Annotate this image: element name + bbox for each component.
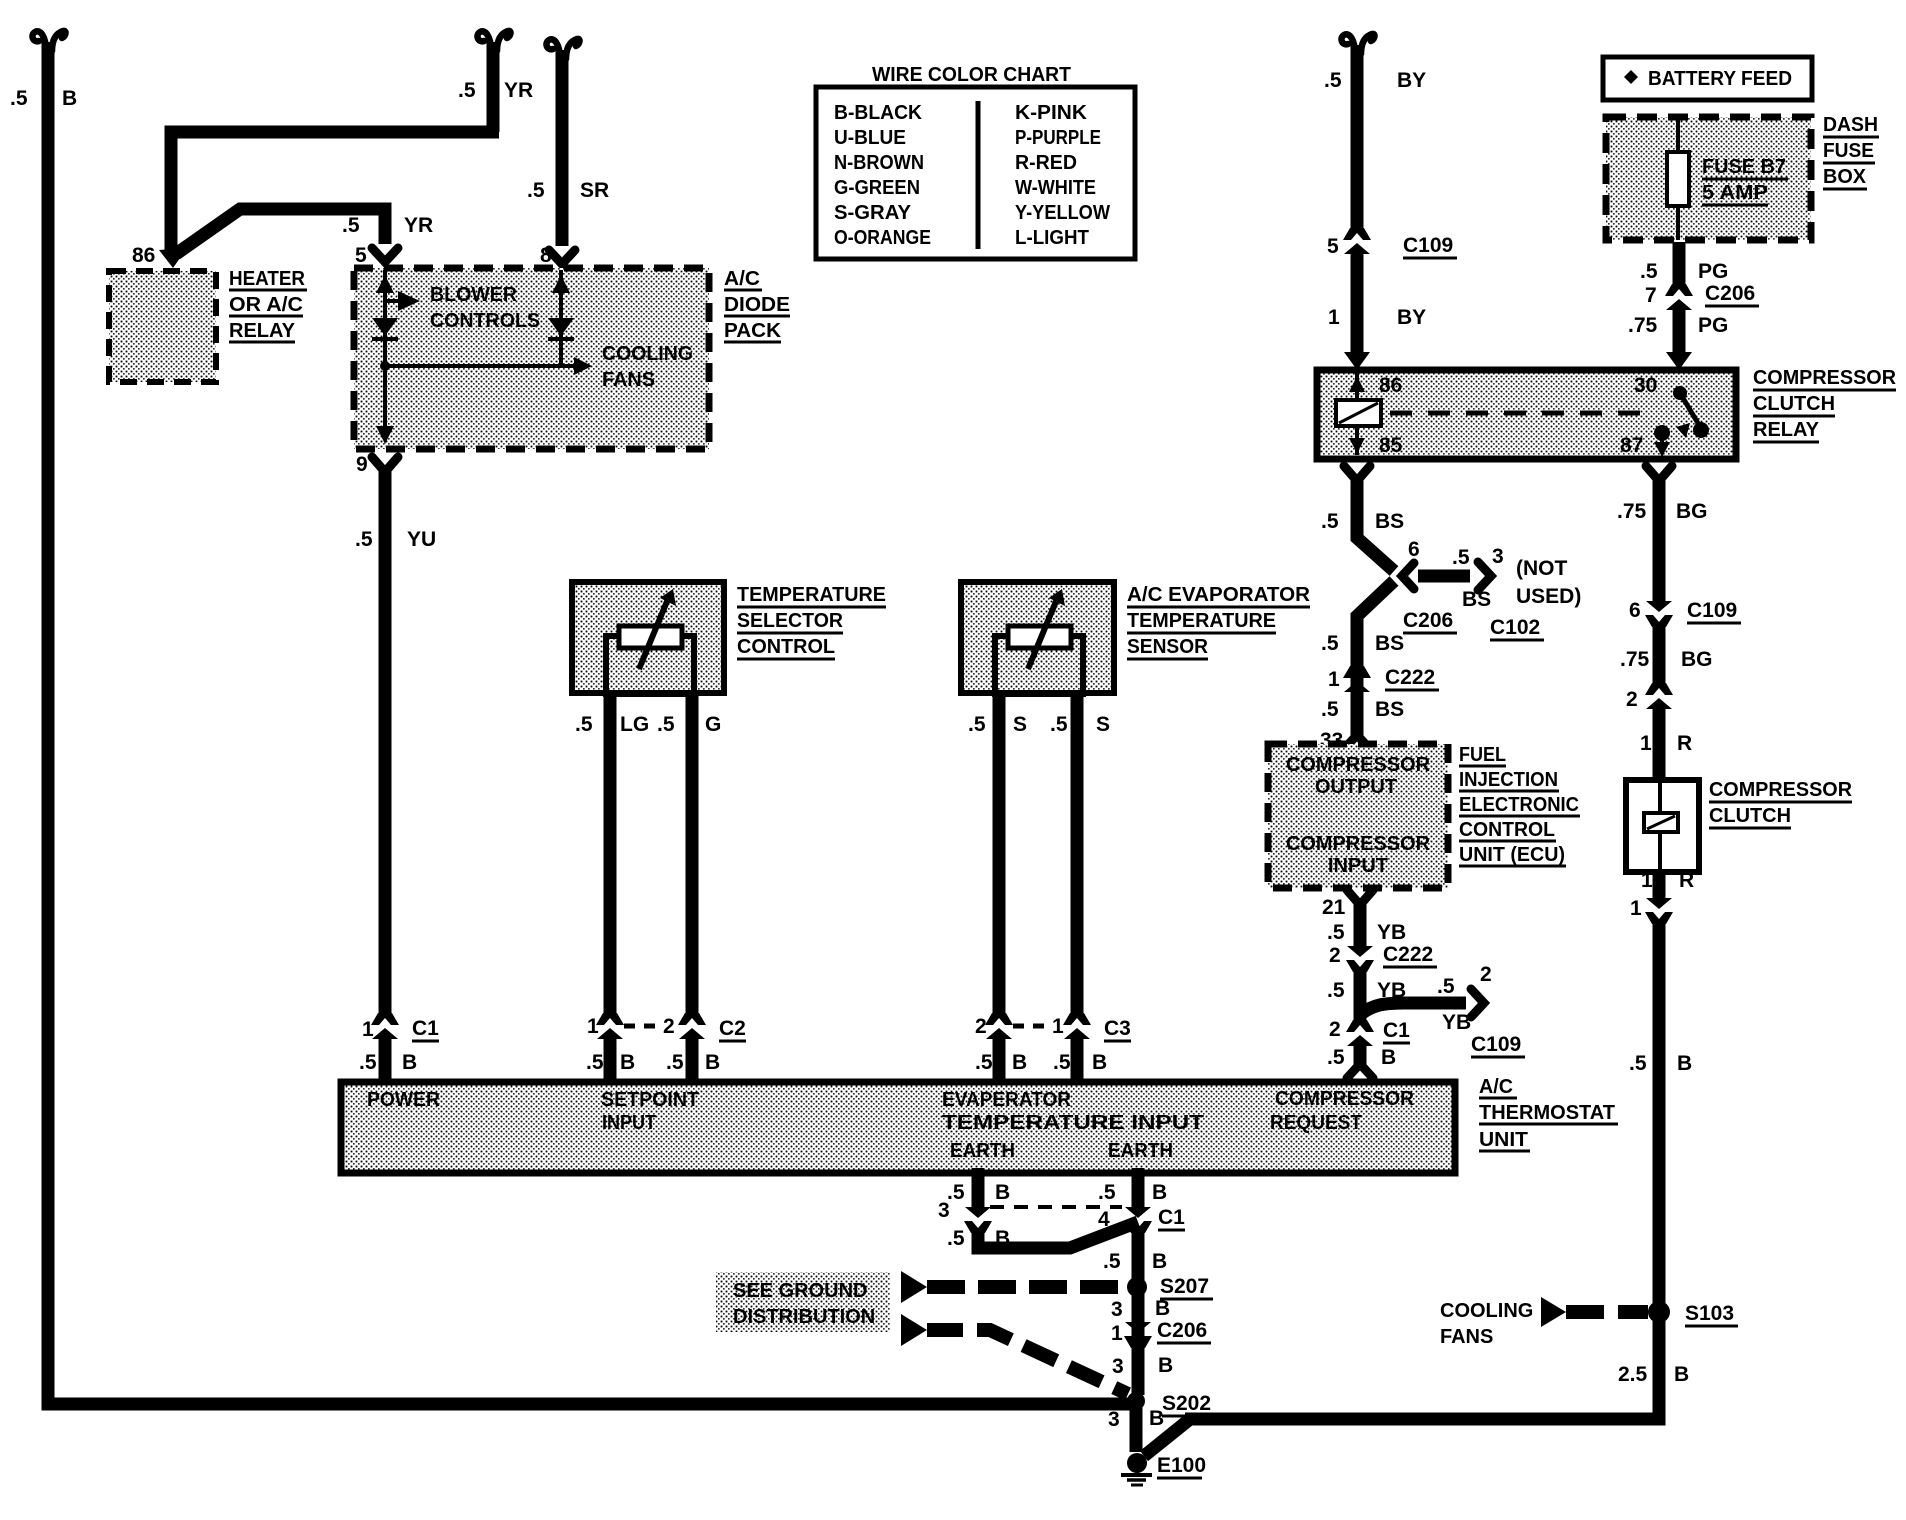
svg-text:PG: PG: [1698, 260, 1728, 283]
junction S202: [1127, 1392, 1145, 1410]
ECU box texts: [1286, 754, 1431, 877]
svg-text:TEMPERATURE: TEMPERATURE: [737, 584, 886, 606]
svg-text:C222: C222: [1383, 943, 1433, 966]
fork into pin 8: [549, 250, 575, 264]
svg-text:B: B: [1158, 1354, 1173, 1377]
svg-text:EVAPERATOR: EVAPERATOR: [942, 1089, 1072, 1111]
connector C3 pin 2: [985, 1013, 1013, 1039]
svg-text:B: B: [1149, 1407, 1164, 1430]
svg-text:6: 6: [1408, 538, 1420, 561]
branch wire YB to C109: [1361, 1003, 1466, 1014]
svg-text:B: B: [1155, 1297, 1170, 1320]
svg-text:INPUT: INPUT: [602, 1112, 656, 1134]
svg-text:.5: .5: [1629, 1052, 1647, 1075]
svg-text:.5: .5: [1452, 546, 1470, 569]
fork below relay 85: [1344, 466, 1370, 481]
label A/C EVAPORATOR TEMPERATURE SENSOR: [1127, 584, 1311, 659]
svg-text:B-BLACK: B-BLACK: [834, 102, 923, 124]
svg-text:.5: .5: [1640, 260, 1658, 283]
svg-text:B: B: [1152, 1250, 1167, 1273]
svg-text:.5: .5: [666, 1051, 684, 1074]
svg-text:.5: .5: [1327, 1046, 1345, 1069]
junction fork C206 pin 6: [1402, 563, 1414, 589]
compressor clutch box: [1626, 780, 1699, 872]
wire color chart box: [816, 87, 1135, 259]
svg-text:.5: .5: [947, 1227, 965, 1250]
arrow up pin 5: [376, 275, 394, 293]
svg-text:TEMPERATURE INPUT: TEMPERATURE INPUT: [942, 1112, 1204, 1134]
ground distribution dashed arrow to S202: [901, 1314, 1128, 1394]
svg-text:8: 8: [540, 244, 552, 267]
svg-text:6: 6: [1629, 599, 1641, 622]
diode pin 5: [372, 318, 398, 336]
wire R to clutch: [1653, 707, 1666, 778]
label HEATER OR A/C RELAY: [229, 268, 307, 342]
svg-text:B: B: [995, 1181, 1010, 1204]
fork below ECU pin 21: [1347, 890, 1373, 905]
label COMPRESSOR CLUTCH RELAY: [1753, 367, 1897, 442]
svg-text:BS: BS: [1375, 632, 1404, 655]
fork end not used: [1478, 562, 1491, 590]
svg-text:9: 9: [356, 453, 368, 476]
label COMPRESSOR CLUTCH: [1709, 779, 1853, 828]
svg-text:COMPRESSOR: COMPRESSOR: [1709, 779, 1853, 801]
A/C thermostat unit box: [341, 1082, 1455, 1173]
wire YR from top curl to heater relay pin 86: [171, 31, 511, 252]
temperature selector control box: [572, 582, 724, 693]
svg-text:DIODE: DIODE: [724, 294, 790, 316]
svg-text:O-ORANGE: O-ORANGE: [834, 227, 931, 249]
svg-text:C109: C109: [1687, 599, 1737, 622]
svg-text:4: 4: [1098, 1208, 1110, 1231]
svg-text:2: 2: [663, 1015, 675, 1038]
svg-text:.5: .5: [1098, 1181, 1116, 1204]
svg-text:.5: .5: [975, 1051, 993, 1074]
svg-text:COOLING: COOLING: [602, 343, 693, 365]
arrow to blower controls: [385, 299, 398, 303]
wire earth right from box: [1132, 1168, 1145, 1208]
svg-text:2: 2: [1329, 944, 1341, 967]
svg-text:C109: C109: [1403, 234, 1453, 257]
connector C222 pin 1: [1343, 666, 1371, 692]
svg-text:OUTPUT: OUTPUT: [1315, 776, 1397, 798]
svg-text:C3: C3: [1104, 1017, 1131, 1040]
connector C1 pin 2: [1346, 1020, 1374, 1046]
svg-text:BATTERY FEED: BATTERY FEED: [1648, 68, 1792, 90]
svg-text:5: 5: [355, 244, 367, 267]
svg-text:EARTH: EARTH: [950, 1140, 1015, 1162]
svg-text:2.5: 2.5: [1618, 1363, 1648, 1386]
wire R below clutch: [1653, 872, 1666, 899]
svg-text:L-LIGHT: L-LIGHT: [1015, 227, 1089, 249]
svg-text:G-GREEN: G-GREEN: [834, 177, 920, 199]
svg-text:SEE GROUND: SEE GROUND: [733, 1280, 867, 1302]
svg-text:R: R: [1679, 869, 1694, 892]
svg-text:C1: C1: [1383, 1019, 1410, 1042]
svg-text:.5: .5: [10, 87, 28, 110]
svg-text:P-PURPLE: P-PURPLE: [1015, 127, 1101, 149]
svg-text:DASH: DASH: [1823, 114, 1878, 136]
svg-text:PG: PG: [1698, 314, 1728, 337]
svg-text:BG: BG: [1681, 648, 1713, 671]
svg-text:S: S: [1096, 713, 1110, 736]
svg-text:FUSE: FUSE: [1823, 140, 1874, 162]
svg-text:UNIT: UNIT: [1479, 1129, 1528, 1151]
connector C206 pin 1 (down): [1124, 1322, 1152, 1348]
svg-text:REQUEST: REQUEST: [1270, 1112, 1362, 1134]
svg-text:YU: YU: [407, 528, 436, 551]
svg-text:.5: .5: [1324, 69, 1342, 92]
svg-text:TEMPERATURE: TEMPERATURE: [1127, 610, 1276, 632]
dashed link C1 bottom: [990, 1205, 1122, 1209]
svg-text:C2: C2: [719, 1017, 746, 1040]
svg-text:2: 2: [1329, 1018, 1341, 1041]
svg-text:.5: .5: [342, 214, 360, 237]
wire YB lower with branch: [1354, 968, 1367, 1023]
svg-text:B: B: [705, 1051, 720, 1074]
svg-text:R: R: [1677, 732, 1692, 755]
svg-text:.5: .5: [1321, 632, 1339, 655]
fork into ECU pin 33: [1344, 735, 1370, 749]
svg-text:30: 30: [1634, 374, 1657, 397]
svg-text:Y-YELLOW: Y-YELLOW: [1015, 202, 1110, 224]
svg-text:S202: S202: [1162, 1392, 1211, 1415]
connector pin 1 (down): [1645, 898, 1673, 924]
svg-text:.5: .5: [527, 179, 545, 202]
svg-text:FUSE B7: FUSE B7: [1702, 156, 1786, 178]
svg-text:7: 7: [1645, 284, 1657, 307]
svg-text:2: 2: [1480, 963, 1492, 986]
svg-text:3: 3: [938, 1199, 950, 1222]
wire into POWER: [379, 1037, 392, 1080]
svg-text:1: 1: [1328, 668, 1340, 691]
connector C2 pin 1: [596, 1013, 624, 1039]
svg-text:B: B: [1092, 1051, 1107, 1074]
svg-text:B: B: [402, 1051, 417, 1074]
svg-text:CONTROLS: CONTROLS: [430, 310, 540, 332]
clutch coil: [1644, 780, 1678, 872]
svg-text:1: 1: [1328, 306, 1340, 329]
wire PG below fuse box: [1673, 242, 1686, 287]
svg-text:C1: C1: [412, 1017, 439, 1040]
wire BY lower: [1351, 251, 1364, 352]
svg-text:COOLING: COOLING: [1440, 1300, 1533, 1322]
svg-text:INPUT: INPUT: [1328, 855, 1388, 877]
svg-text:.5: .5: [458, 79, 476, 102]
relay switch 30-87: [1654, 386, 1709, 457]
svg-text:YB: YB: [1377, 921, 1406, 944]
junction pin5 to cooling fans: [380, 361, 390, 371]
svg-text:.75: .75: [1628, 314, 1658, 337]
svg-text:LG: LG: [620, 713, 649, 736]
svg-text:2: 2: [1626, 688, 1638, 711]
svg-text:CLUTCH: CLUTCH: [1753, 393, 1835, 415]
svg-text:YB: YB: [1442, 1011, 1471, 1034]
svg-text:COMPRESSOR: COMPRESSOR: [1275, 1088, 1415, 1110]
connector C2 pin 2: [678, 1013, 706, 1039]
compressor clutch relay box: [1317, 370, 1736, 459]
potentiometer R temp selector: [606, 589, 694, 694]
ground distribution dashed arrow to S207: [901, 1271, 1126, 1303]
svg-text:C1: C1: [1158, 1206, 1185, 1229]
svg-text:BLOWER: BLOWER: [430, 284, 518, 306]
wire down to S207: [1132, 1229, 1145, 1395]
wire BS with jog: [1357, 477, 1394, 738]
potentiometer R evap sensor: [995, 589, 1083, 694]
connector pin 2 (up): [1645, 683, 1673, 709]
connector C109 pin 6 (down): [1645, 601, 1673, 627]
connector C1 pin 4 (down): [1124, 1207, 1152, 1233]
wire BG upper: [1653, 477, 1666, 602]
cooling fans dashed arrow: [1541, 1297, 1648, 1327]
wire YU vertical: [379, 468, 392, 1016]
svg-text:COMPRESSOR: COMPRESSOR: [1286, 754, 1431, 776]
wire S left from evap sensor: [993, 693, 1006, 1016]
dash fuse box: [1606, 117, 1811, 240]
label FUSE B7 5 AMP: [1702, 156, 1788, 205]
pin 8 internal line: [559, 270, 563, 366]
svg-text:B: B: [1012, 1051, 1027, 1074]
svg-text:HEATER: HEATER: [229, 268, 306, 290]
fork below pin 9: [372, 457, 398, 472]
svg-text:DISTRIBUTION: DISTRIBUTION: [733, 1306, 875, 1328]
arrow down pin 9 exit: [376, 426, 394, 444]
svg-text:C109: C109: [1471, 1033, 1521, 1056]
thermostat box texts: [367, 1088, 1415, 1162]
chart divider: [976, 101, 981, 249]
wire YB from ECU: [1354, 899, 1367, 947]
wires into evaporator temperature input: [993, 1037, 1006, 1080]
svg-text:CLUTCH: CLUTCH: [1709, 805, 1791, 827]
svg-text:1: 1: [362, 1018, 374, 1041]
heater or A/C relay box: [109, 271, 216, 382]
junction S207: [1127, 1277, 1147, 1297]
label TEMPERATURE SELECTOR CONTROL: [737, 584, 886, 659]
svg-text:21: 21: [1322, 896, 1346, 919]
svg-text:C206: C206: [1705, 282, 1755, 305]
svg-text:C206: C206: [1157, 1319, 1207, 1342]
svg-text:1: 1: [1641, 869, 1653, 892]
svg-text:COMPRESSOR: COMPRESSOR: [1286, 833, 1431, 855]
pin 5 internal line: [383, 270, 387, 440]
svg-text:S207: S207: [1160, 1275, 1209, 1298]
fuel injection ECU box: [1268, 744, 1448, 888]
connector pin 3 (down): [964, 1207, 992, 1233]
svg-text:.5: .5: [1327, 979, 1345, 1002]
svg-text:1: 1: [1630, 897, 1642, 920]
svg-text:B: B: [1674, 1363, 1689, 1386]
svg-text:.75: .75: [1620, 648, 1650, 671]
svg-text:5 AMP: 5 AMP: [1702, 182, 1768, 204]
label A/C DIODE PACK: [724, 268, 790, 342]
svg-text:87: 87: [1620, 434, 1643, 457]
svg-text:.5: .5: [1103, 1250, 1121, 1273]
svg-text:SELECTOR: SELECTOR: [737, 610, 844, 632]
wire S right from evap sensor: [1071, 693, 1084, 1016]
svg-text:(NOT: (NOT: [1516, 557, 1567, 580]
svg-text:B: B: [1381, 1046, 1396, 1069]
relay internal dashed line: [1390, 411, 1650, 416]
label A/C THERMOSTAT UNIT: [1479, 1076, 1618, 1151]
svg-text:1: 1: [1052, 1015, 1064, 1038]
label FUEL INJECTION ELECTRONIC CONTROL UNIT (ECU): [1459, 744, 1580, 866]
svg-text:3: 3: [1108, 1408, 1120, 1431]
svg-text:A/C: A/C: [1479, 1076, 1513, 1098]
svg-text:POWER: POWER: [367, 1089, 441, 1111]
ground E100: [1121, 1453, 1152, 1485]
svg-text:BG: BG: [1676, 500, 1708, 523]
svg-text:R-RED: R-RED: [1015, 152, 1077, 174]
svg-text:.5: .5: [968, 713, 986, 736]
svg-text:.5: .5: [586, 1051, 604, 1074]
connector C1 pin 1 (arrow up): [371, 1013, 399, 1039]
svg-text:86: 86: [132, 244, 155, 267]
diagonal to E100 wire: [1144, 1419, 1190, 1456]
dashed link C2: [624, 1024, 660, 1029]
wire SR vertical: [546, 39, 579, 246]
svg-text:COMPRESSOR: COMPRESSOR: [1753, 367, 1897, 389]
svg-text:86: 86: [1379, 374, 1402, 397]
wires into setpoint input: [604, 1037, 617, 1080]
dashed link C3: [1013, 1024, 1048, 1029]
svg-text:K-PINK: K-PINK: [1015, 102, 1088, 124]
svg-text:SR: SR: [580, 179, 609, 202]
svg-text:BS: BS: [1375, 698, 1404, 721]
svg-text:.75: .75: [1617, 500, 1647, 523]
svg-text:OR A/C: OR A/C: [229, 294, 303, 316]
svg-text:BY: BY: [1397, 306, 1426, 329]
svg-text:RELAY: RELAY: [1753, 419, 1820, 441]
wire BY vertical: [1341, 34, 1374, 231]
chart right column: [1015, 102, 1110, 249]
svg-text:S-GRAY: S-GRAY: [834, 202, 912, 224]
svg-text:N-BROWN: N-BROWN: [834, 152, 924, 174]
svg-text:BY: BY: [1397, 69, 1426, 92]
svg-text:FANS: FANS: [1440, 1326, 1493, 1348]
A/C evaporator temperature sensor box: [961, 582, 1114, 693]
svg-text:YR: YR: [504, 79, 533, 102]
svg-text:.5: .5: [657, 713, 675, 736]
connector C222 pin 2 (down): [1346, 946, 1374, 972]
svg-text:BOX: BOX: [1823, 166, 1867, 188]
arrowhead into pin 86: [159, 248, 187, 268]
svg-text:B: B: [995, 1227, 1010, 1250]
svg-text:G: G: [705, 713, 721, 736]
svg-text:.5: .5: [1327, 921, 1345, 944]
wire earth left lower jog: [978, 1222, 1138, 1248]
svg-text:ELECTRONIC: ELECTRONIC: [1459, 794, 1579, 816]
svg-text:1: 1: [1111, 1322, 1123, 1345]
connector C3 pin 1: [1063, 1013, 1091, 1039]
svg-text:EARTH: EARTH: [1108, 1140, 1173, 1162]
svg-text:USED): USED): [1516, 585, 1581, 608]
svg-text:3: 3: [1492, 545, 1504, 568]
svg-text:B: B: [62, 87, 77, 110]
label DASH FUSE BOX: [1823, 114, 1879, 189]
svg-text:.5: .5: [359, 1051, 377, 1074]
svg-text:.5: .5: [1321, 698, 1339, 721]
fork below relay 87: [1646, 466, 1672, 481]
svg-text:1: 1: [1640, 732, 1652, 755]
svg-text:B: B: [1677, 1052, 1692, 1075]
svg-text:FANS: FANS: [602, 369, 655, 391]
svg-text:A/C EVAPORATOR: A/C EVAPORATOR: [1127, 584, 1311, 606]
svg-text:E100: E100: [1157, 1454, 1206, 1477]
fork into thermostat box: [1347, 1064, 1373, 1078]
svg-text:2: 2: [975, 1015, 987, 1038]
wire earth left from box: [972, 1168, 985, 1208]
svg-text:UNIT (ECU): UNIT (ECU): [1459, 844, 1565, 866]
svg-text:FUEL: FUEL: [1459, 744, 1506, 766]
wire G from temp selector: [686, 693, 699, 1016]
svg-text:.5: .5: [1050, 713, 1068, 736]
svg-text:1: 1: [587, 1015, 599, 1038]
svg-text:THERMOSTAT: THERMOSTAT: [1479, 1102, 1615, 1124]
see ground distribution text: [716, 1272, 890, 1332]
svg-text:BS: BS: [1375, 510, 1404, 533]
wire into compressor request: [1354, 1044, 1367, 1065]
wire YR from pin 86 to diode pack pin 5: [176, 209, 385, 254]
svg-text:SETPOINT: SETPOINT: [601, 1089, 699, 1111]
fork end branch C109: [1471, 989, 1484, 1017]
svg-text:S: S: [1013, 713, 1027, 736]
svg-text:C222: C222: [1385, 666, 1435, 689]
svg-text:BS: BS: [1462, 588, 1491, 611]
svg-text:S103: S103: [1685, 1302, 1734, 1325]
svg-text:INJECTION: INJECTION: [1459, 769, 1558, 791]
fuse B7 symbol: [1667, 117, 1689, 240]
svg-text:YR: YR: [404, 214, 433, 237]
connector C206 pin 7: [1665, 284, 1693, 310]
arrowhead into relay 30: [1666, 352, 1692, 370]
connector C109 pin 5: [1343, 228, 1371, 254]
diode pin 8: [548, 318, 574, 336]
wire BG lower: [1653, 623, 1666, 686]
svg-text:RELAY: RELAY: [229, 320, 296, 342]
wire S202 to E100: [1130, 1401, 1143, 1452]
svg-text:.5: .5: [1321, 510, 1339, 533]
svg-text:.5: .5: [575, 713, 593, 736]
svg-text:CONTROL: CONTROL: [1459, 819, 1555, 841]
arrow up pin 8: [552, 275, 570, 293]
svg-text:WIRE COLOR CHART: WIRE COLOR CHART: [872, 64, 1071, 86]
svg-text:W-WHITE: W-WHITE: [1015, 177, 1096, 199]
svg-text:CONTROL: CONTROL: [737, 636, 835, 658]
arrowhead into relay 86: [1344, 352, 1370, 370]
wire B long down to corner: [1185, 920, 1659, 1419]
svg-text:C102: C102: [1490, 616, 1540, 639]
A/C diode pack box: [354, 268, 709, 449]
svg-text:3: 3: [1111, 1298, 1123, 1321]
battery feed box: [1603, 57, 1812, 100]
svg-text:5: 5: [1327, 235, 1339, 258]
label + BATTERY FEED: [1624, 70, 1638, 84]
svg-text:A/C: A/C: [724, 268, 760, 290]
svg-text:B: B: [1152, 1181, 1167, 1204]
svg-text:3: 3: [1112, 1355, 1124, 1378]
wire .75 PG: [1673, 307, 1686, 352]
fork into pin 5: [372, 248, 398, 262]
branch wire to C102: [1418, 570, 1470, 583]
relay coil: [1336, 373, 1381, 455]
svg-text:.5: .5: [355, 528, 373, 551]
svg-text:PACK: PACK: [724, 320, 782, 342]
svg-text:C206: C206: [1403, 609, 1453, 632]
svg-text:SENSOR: SENSOR: [1127, 636, 1209, 658]
wire LG from temp selector: [604, 693, 617, 1016]
junction S103: [1648, 1301, 1670, 1323]
svg-text:85: 85: [1379, 434, 1403, 457]
